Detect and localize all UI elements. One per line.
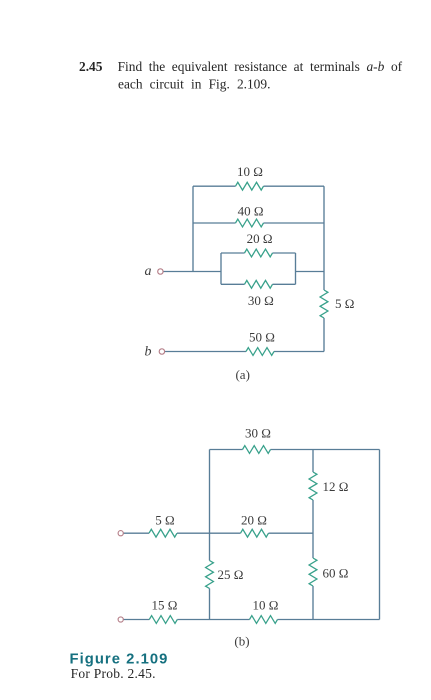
svg-text:10 Ω: 10 Ω [253, 598, 279, 613]
svg-text:5 Ω: 5 Ω [335, 296, 354, 311]
svg-text:20 Ω: 20 Ω [241, 513, 267, 528]
svg-text:For Prob. 2.45.: For Prob. 2.45. [71, 666, 156, 681]
svg-text:40 Ω: 40 Ω [238, 203, 264, 218]
svg-text:20 Ω: 20 Ω [247, 231, 273, 246]
svg-text:25 Ω: 25 Ω [218, 567, 244, 582]
svg-text:12 Ω: 12 Ω [323, 479, 349, 494]
svg-text:10 Ω: 10 Ω [237, 164, 263, 179]
svg-text:30 Ω: 30 Ω [248, 293, 274, 308]
svg-text:60 Ω: 60 Ω [323, 566, 349, 581]
svg-text:(b): (b) [234, 634, 249, 649]
svg-text:each circuit in Fig. 2.109.: each circuit in Fig. 2.109. [118, 77, 270, 92]
svg-text:(a): (a) [235, 367, 249, 382]
svg-text:2.45: 2.45 [79, 59, 103, 74]
svg-text:30 Ω: 30 Ω [245, 426, 271, 441]
svg-text:a: a [145, 264, 152, 279]
svg-text:Find the equivalent resistance: Find the equivalent resistance at termin… [118, 59, 403, 74]
svg-text:b: b [145, 344, 152, 359]
svg-text:5 Ω: 5 Ω [155, 513, 174, 528]
svg-text:15 Ω: 15 Ω [152, 598, 178, 613]
svg-text:50 Ω: 50 Ω [249, 330, 275, 345]
